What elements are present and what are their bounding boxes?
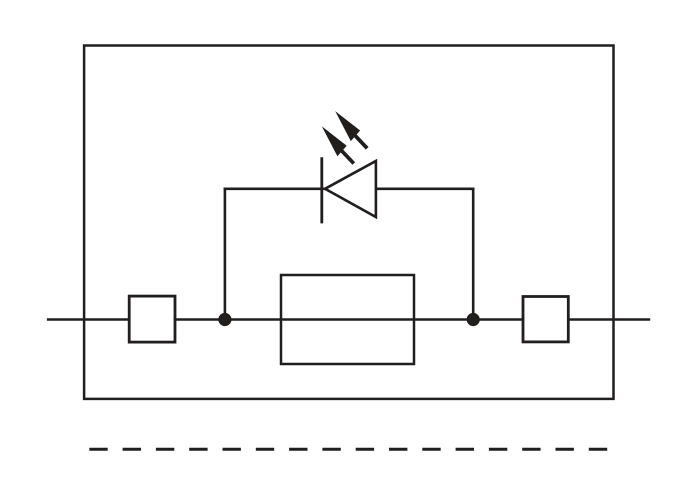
- junction node right: [467, 313, 480, 326]
- wire LED branch left: [224, 188, 326, 191]
- fuse F1: [281, 275, 414, 364]
- LED emission arrow 1: [322, 126, 354, 163]
- clamp contact square left: [129, 296, 175, 342]
- wire left lead: [47, 318, 131, 321]
- rail dashed line: [89, 448, 608, 451]
- wire riser left: [224, 188, 227, 320]
- clamp contact square right: [523, 297, 568, 342]
- wire right lead: [567, 318, 650, 321]
- wire LED branch right: [376, 188, 475, 191]
- wire between clamps through fuse: [174, 318, 525, 321]
- enclosure outline: [84, 46, 613, 399]
- junction node left: [218, 313, 231, 326]
- wire riser right: [472, 188, 475, 320]
- LED emission arrow 2: [335, 111, 367, 148]
- LED D1 cathode bar: [320, 157, 323, 223]
- LED D1 triangle: [325, 161, 376, 217]
